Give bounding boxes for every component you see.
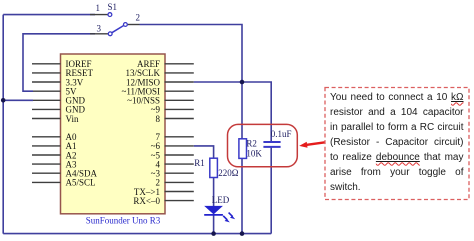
wire: S1 pin2 to node A / R2 top — [140, 25, 243, 139]
callout arrow from note box to RC circuit — [306, 142, 331, 145]
wire: R2 bottom to ground rail — [241, 158, 243, 233]
svg-text:0.1uF: 0.1uF — [271, 129, 292, 139]
highlight ellipse around RC circuit — [228, 124, 298, 166]
wire: capacitor bottom to ground rail — [270, 147, 272, 233]
IC U1 right pin labels — [121, 59, 160, 206]
wire: S1 pin1 to ground rail — [3, 14, 95, 16]
wire: GND pin to ground rail — [3, 99, 33, 101]
note box dashed border — [325, 88, 469, 200]
LED D1 emission arrows — [223, 213, 235, 223]
svg-text:3: 3 — [97, 23, 102, 33]
wire: 12/MISO pin to capacitor top — [194, 82, 271, 141]
resistor R1 body — [210, 158, 218, 177]
wire: R1 bottom to LED anode — [213, 178, 215, 207]
svg-text:R1: R1 — [194, 158, 205, 168]
wire: ground left rail — [2, 15, 4, 234]
switch S1 contacts and lever — [108, 13, 127, 36]
wire: ground bottom rail — [3, 233, 271, 235]
junction: R2 bottom at ground rail — [240, 231, 245, 236]
junction: LED cathode at ground rail — [211, 231, 216, 236]
svg-text:RX<–0: RX<–0 — [133, 196, 160, 206]
svg-text:R2: R2 — [246, 138, 257, 148]
IC U1 left pin stubs (IOREF..A5/SCL) — [32, 64, 61, 183]
capacitor C1 plates — [263, 142, 280, 147]
IC U1 left pin labels — [66, 59, 98, 188]
junction: node A (switch/MISO/R2/C) — [240, 80, 245, 85]
junction: ground rail / GND pin — [1, 98, 6, 103]
svg-text:10K: 10K — [246, 149, 262, 159]
svg-text:2: 2 — [136, 13, 141, 23]
svg-text:1: 1 — [96, 3, 101, 13]
wire: LED cathode to ground rail — [213, 215, 215, 234]
wire: pin ~6 to R1 top — [194, 146, 214, 158]
IC U1 SunFounder Uno R3 body — [61, 54, 166, 214]
switch S1 pin stubs — [90, 15, 140, 34]
wire: S1 pin3 to 5V pin — [23, 34, 95, 91]
IC U1 right pin stubs (AREF..RX0) — [165, 64, 194, 201]
svg-text:220Ω: 220Ω — [218, 168, 239, 178]
resistor R2 body — [239, 139, 247, 159]
note box text — [325, 88, 469, 200]
svg-text:A5/SCL: A5/SCL — [66, 178, 96, 188]
LED D1 triangle and cathode bar — [204, 206, 223, 215]
svg-text:Vin: Vin — [66, 114, 79, 124]
svg-text:SunFounder Uno R3: SunFounder Uno R3 — [86, 215, 161, 225]
svg-text:LED: LED — [212, 195, 230, 205]
svg-text:8: 8 — [156, 114, 161, 124]
svg-text:S1: S1 — [108, 2, 118, 12]
